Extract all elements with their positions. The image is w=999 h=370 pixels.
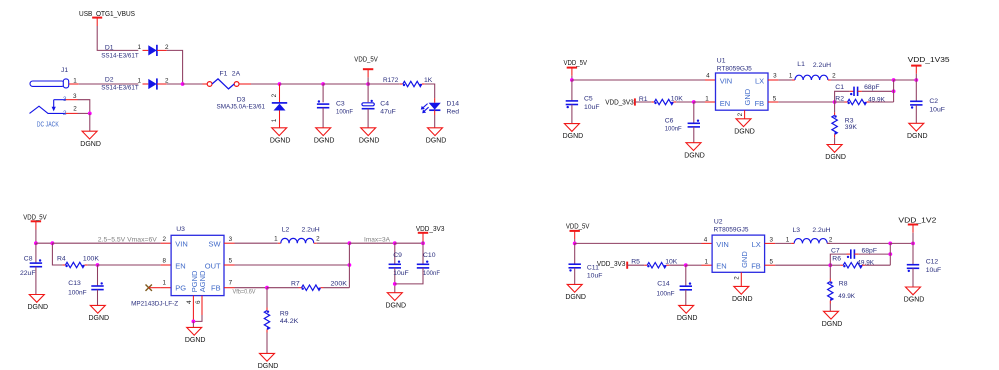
svg-text:2.5~5.5V Vmax=6V: 2.5~5.5V Vmax=6V (98, 237, 157, 243)
svg-text:OUT: OUT (205, 262, 221, 271)
wire C7 to output branch (859, 253, 891, 255)
pin stub U1 GND (737, 110, 745, 118)
ground DGND (R9) (258, 353, 279, 370)
junction J1 ground node (88, 112, 92, 116)
pin stub U3 EN (161, 258, 172, 266)
svg-text:EN: EN (175, 262, 185, 271)
junction output/C2 (914, 78, 918, 82)
svg-text:Imax=3A: Imax=3A (364, 238, 390, 244)
power VDD_5V (U1 block) (564, 60, 588, 80)
capacitor C14 (680, 265, 692, 305)
svg-text:L3: L3 (793, 227, 801, 234)
power VDD_5V (U3 block) (23, 215, 47, 244)
pin stub U2 GND (734, 272, 742, 286)
svg-text:DGND: DGND (314, 137, 335, 144)
wire R8 to ground (829, 304, 831, 312)
wire C3 node to C4 node (323, 83, 368, 85)
wire VDD_3V3 to R5 (627, 264, 644, 266)
wire FB to divider node (778, 101, 834, 103)
capacitor C3 (317, 84, 329, 128)
power VDD_5V (U2 block) (566, 223, 590, 243)
resistor R7 (299, 285, 324, 290)
svg-text:C9: C9 (393, 252, 402, 259)
wire FB node up to C1 (835, 91, 850, 102)
ground DGND (D3) (270, 128, 291, 145)
note Imax (364, 238, 390, 244)
svg-text:R1: R1 (639, 96, 648, 103)
svg-text:10uF: 10uF (584, 104, 600, 111)
pin 3 J1 (66, 93, 78, 100)
label R1 (639, 95, 683, 103)
junction FB node (U3) (265, 286, 269, 290)
svg-text:R5: R5 (631, 258, 640, 265)
svg-text:DC JACK: DC JACK (37, 120, 59, 129)
pin numbers D2 (138, 77, 170, 84)
label C2 (929, 98, 945, 113)
wire C1 to output branch (862, 90, 894, 92)
wire EN node to U1 EN (694, 101, 705, 103)
svg-text:2: 2 (165, 44, 169, 51)
svg-text:1: 1 (271, 118, 278, 122)
svg-text:AGND: AGND (198, 270, 207, 292)
svg-text:1: 1 (274, 236, 278, 243)
label D14 (447, 101, 460, 116)
svg-text:C1: C1 (835, 84, 844, 91)
capacitor C2 (910, 80, 922, 123)
pin stub U2 EN (702, 258, 713, 265)
wire R4 to EN node (87, 264, 97, 266)
pin names U3 (175, 240, 221, 293)
svg-text:DGND: DGND (27, 304, 48, 311)
capacitor C4 (polarized) (362, 84, 375, 128)
junction VDD_5V/C11 (573, 242, 577, 246)
svg-text:D2: D2 (105, 76, 114, 83)
svg-text:C14: C14 (657, 280, 670, 287)
svg-text:LX: LX (755, 76, 764, 85)
led D14 (421, 98, 441, 115)
svg-text:EN: EN (720, 99, 730, 108)
pin stub U3 PG (161, 280, 172, 288)
label DC JACK (37, 120, 59, 129)
svg-text:2A: 2A (232, 70, 241, 77)
pin names U1 (720, 76, 765, 108)
resistor R172 (400, 81, 425, 86)
svg-text:2: 2 (832, 73, 836, 80)
capacitor C11 (569, 243, 581, 284)
pin stub U2 FB (765, 258, 776, 265)
wire output branch vertical (U3) (348, 243, 350, 288)
svg-text:4: 4 (186, 300, 193, 304)
capacitor C13 (91, 265, 103, 305)
svg-text:10K: 10K (671, 95, 684, 102)
wire output to VDD_1V35 (894, 79, 917, 81)
svg-text:C8: C8 (24, 255, 33, 262)
svg-text:RT8059GJ5: RT8059GJ5 (714, 227, 749, 234)
junction VDD_5V/C5 (570, 78, 574, 82)
label D2 (101, 76, 139, 91)
svg-text:DGND: DGND (385, 302, 406, 309)
inductor L2 (278, 238, 317, 243)
inductor L1 (792, 75, 831, 80)
junction VDD_5V/C8 (34, 241, 38, 245)
svg-text:39K: 39K (845, 124, 858, 131)
label C3 (336, 101, 353, 116)
ground DGND (C3) (314, 128, 335, 145)
svg-text:47uF: 47uF (380, 108, 396, 115)
svg-text:Vfb=0.6V: Vfb=0.6V (233, 289, 256, 295)
junction EN/C14 node (684, 263, 688, 267)
svg-text:DGND: DGND (80, 141, 101, 148)
junction D3 node (278, 82, 282, 86)
pin names U2 (716, 240, 761, 271)
pin stub U1 EN (705, 95, 716, 102)
resistor R4 (62, 262, 87, 267)
svg-text:MP2143DJ-LF-Z: MP2143DJ-LF-Z (131, 301, 178, 308)
svg-text:VIN: VIN (716, 240, 729, 249)
wire L2 to output node (317, 242, 350, 244)
svg-text:68pF: 68pF (864, 84, 880, 91)
svg-text:PG: PG (175, 284, 186, 293)
ground DGND (R3) (825, 145, 846, 162)
svg-text:3: 3 (773, 73, 777, 80)
svg-text:DGND: DGND (904, 297, 925, 304)
junction FB node (U2) (828, 263, 832, 267)
junction FB node (833, 100, 837, 104)
wire AGND to PGND (193, 315, 202, 321)
svg-text:22uF: 22uF (20, 270, 36, 277)
svg-text:USB_OTG1_VBUS: USB_OTG1_VBUS (79, 11, 135, 18)
label C7 (831, 248, 877, 255)
label C8 (20, 255, 36, 277)
ground DGND (C4) (359, 128, 380, 145)
svg-text:R8: R8 (839, 281, 848, 288)
svg-text:DGND: DGND (732, 296, 753, 303)
wire C4 node to R172 (368, 83, 400, 85)
svg-text:VDD_1V35: VDD_1V35 (908, 57, 950, 64)
svg-text:GND: GND (740, 251, 749, 268)
svg-text:C2: C2 (929, 98, 938, 105)
wire FB node to R3 (834, 102, 836, 112)
wire C9 to VDD_3V3 (395, 242, 423, 244)
svg-text:2.2uH: 2.2uH (813, 62, 831, 69)
ground DGND (C12) (904, 287, 925, 304)
svg-text:FB: FB (211, 284, 221, 293)
resistor R9 (264, 308, 269, 333)
label U1 (717, 58, 752, 73)
svg-text:DGND: DGND (907, 133, 928, 140)
wire L1 to output node (831, 79, 894, 81)
svg-text:5: 5 (229, 258, 233, 265)
svg-text:100nF: 100nF (423, 270, 440, 277)
pin stub U1 FB (768, 95, 778, 102)
wire FB to divider node (235, 287, 268, 289)
label C11 (587, 265, 603, 280)
wire OUT to output branch (235, 264, 350, 266)
svg-text:FB: FB (751, 261, 761, 270)
svg-text:DGND: DGND (677, 315, 698, 322)
diode D1 (143, 45, 167, 56)
note Vfb (233, 289, 256, 295)
svg-text:RT8059GJ5: RT8059GJ5 (717, 66, 752, 73)
pin stub U2 LX (765, 237, 776, 244)
junction C7/output branch (888, 252, 892, 256)
wire EN node to U3 EN (98, 264, 161, 266)
capacitor C6 (688, 102, 700, 143)
wire FB node to R8 (829, 265, 831, 278)
svg-text:4: 4 (704, 237, 708, 244)
connector J1 sleeve/switch contacts (30, 96, 68, 117)
svg-text:2: 2 (165, 77, 169, 84)
resistor R6 (840, 263, 865, 268)
wire J1 pin1 to D2 (79, 83, 139, 85)
pin numbers L3 (786, 237, 833, 244)
svg-text:Red: Red (447, 108, 460, 115)
label C6 (665, 117, 682, 132)
wire R2 to output branch (870, 101, 894, 103)
capacitor C5 (566, 80, 578, 124)
svg-text:DGND: DGND (359, 137, 380, 144)
svg-text:4: 4 (706, 73, 710, 80)
svg-text:L2: L2 (282, 226, 290, 233)
svg-text:2: 2 (737, 112, 744, 116)
svg-text:100nF: 100nF (665, 126, 682, 133)
svg-text:VDD_3V3: VDD_3V3 (605, 100, 634, 107)
svg-text:10uF: 10uF (929, 106, 945, 113)
svg-text:R9: R9 (280, 310, 289, 317)
junction VDD_3V3 node (421, 241, 425, 245)
svg-text:100K: 100K (83, 256, 99, 263)
diode D2 (143, 78, 167, 89)
label C14 (657, 280, 675, 297)
label R7 (291, 280, 347, 287)
label R9 (280, 310, 299, 325)
label C12 (926, 259, 942, 275)
svg-text:1: 1 (786, 237, 790, 244)
svg-text:10uF: 10uF (393, 270, 409, 277)
junction EN/C6 node (692, 100, 696, 104)
junction C9 node (393, 241, 397, 245)
svg-text:1: 1 (138, 77, 142, 84)
ground DGND (C14) (677, 305, 698, 322)
svg-text:10uF: 10uF (587, 272, 603, 279)
ground DGND (C8) (27, 295, 48, 312)
regulator U3 (171, 235, 224, 295)
svg-text:L1: L1 (797, 61, 805, 68)
wire R1 to EN node (676, 101, 694, 103)
svg-text:VDD_5V: VDD_5V (354, 57, 378, 64)
svg-text:F1: F1 (220, 70, 228, 77)
svg-text:DGND: DGND (88, 315, 109, 322)
wire U3 ground down (192, 321, 194, 327)
svg-text:VDD_3V3: VDD_3V3 (416, 226, 445, 233)
svg-text:68pF: 68pF (862, 248, 878, 255)
svg-text:R172: R172 (383, 77, 399, 84)
svg-text:1K: 1K (424, 77, 433, 84)
ground DGND (U3) (185, 327, 206, 344)
wire R4 branch down (52, 243, 62, 265)
ground DGND (C2) (907, 123, 928, 140)
junction OUT branch (348, 263, 352, 267)
wire J1 pin3 to pin2 (78, 100, 90, 114)
svg-text:3: 3 (73, 93, 77, 100)
junction C4 node (366, 82, 370, 86)
label C9 (393, 252, 409, 277)
power VDD_3V3 (U1 block) (605, 98, 635, 106)
capacitor C1 (850, 87, 862, 96)
svg-text:DGND: DGND (270, 137, 291, 144)
regulator U2 (712, 235, 765, 272)
svg-text:C6: C6 (665, 117, 674, 124)
ground DGND (U1) (734, 119, 755, 136)
label U3 (176, 226, 185, 233)
svg-text:3: 3 (769, 237, 773, 244)
svg-text:R2: R2 (835, 96, 844, 103)
label U2 (714, 218, 749, 233)
svg-text:DGND: DGND (258, 363, 279, 370)
wire FB node to R9 (266, 288, 268, 308)
svg-text:C3: C3 (336, 101, 345, 108)
ground DGND (C6) (684, 143, 705, 160)
svg-text:VDD_5V: VDD_5V (566, 223, 590, 230)
pin stub U3 VIN (161, 236, 172, 243)
junction C1/output branch (892, 89, 896, 93)
ground DGND (C9) (385, 293, 406, 310)
svg-text:10uF: 10uF (926, 267, 942, 274)
wire FB to divider node (U2) (775, 264, 830, 266)
pin numbers L2 (274, 236, 320, 243)
svg-text:2.2uH: 2.2uH (302, 226, 320, 233)
svg-text:U2: U2 (714, 218, 723, 225)
pin stub U1 LX (768, 73, 778, 80)
svg-text:6: 6 (195, 300, 202, 304)
pin stub U3 OUT (224, 258, 235, 266)
power VDD_5V (top-left) (354, 57, 378, 84)
label R8 (838, 281, 855, 300)
wire FB node to R7 (267, 287, 299, 289)
capacitor C8 (30, 243, 42, 294)
power VDD_1V35 (908, 57, 950, 80)
svg-text:LX: LX (752, 240, 761, 249)
svg-text:1: 1 (789, 73, 793, 80)
svg-text:DGND: DGND (563, 133, 584, 140)
fuse F1 (207, 79, 239, 89)
wire R3 to ground (834, 137, 836, 144)
note input voltage (98, 237, 157, 243)
svg-text:VDD_3V3: VDD_3V3 (597, 261, 626, 268)
svg-text:2: 2 (829, 237, 833, 244)
wire VDD_5V to R4 branch (36, 242, 53, 244)
label C10 (423, 252, 440, 277)
svg-text:2: 2 (162, 236, 166, 243)
wire output branch vertical (U2) (889, 243, 891, 265)
label R5 (631, 258, 678, 265)
svg-text:200K: 200K (331, 280, 348, 287)
wire output to C9 (349, 242, 394, 244)
svg-text:SS14-E3/61T: SS14-E3/61T (101, 53, 139, 60)
svg-text:R4: R4 (57, 256, 66, 263)
inductor L3 (791, 239, 830, 244)
label C4 (380, 101, 396, 116)
pin 2 J1 (66, 105, 78, 113)
svg-text:DGND: DGND (684, 152, 705, 159)
svg-text:2: 2 (316, 236, 320, 243)
svg-text:100nF: 100nF (336, 108, 353, 115)
svg-text:R7: R7 (291, 280, 300, 287)
junction output/C12 (911, 242, 915, 246)
svg-text:VDD_1V2: VDD_1V2 (898, 218, 936, 225)
capacitor C9 (389, 243, 401, 293)
svg-text:D1: D1 (105, 44, 114, 51)
junction output/OUT branch (348, 241, 352, 245)
junction output/feedback (892, 78, 896, 82)
ground DGND (C11) (565, 284, 586, 301)
svg-text:SMAJ5.0A-E3/61: SMAJ5.0A-E3/61 (217, 103, 266, 110)
no-connect X on PG (146, 285, 161, 291)
junction EN/C13 node (96, 263, 100, 267)
wire VDD_5V to U2 VIN (575, 242, 702, 244)
capacitor C12 (907, 243, 919, 287)
regulator U1 (716, 73, 769, 110)
wire FB node up to C7 (830, 254, 846, 265)
wire D3 node to C3 node (280, 83, 324, 85)
wire to DC jack ground (89, 113, 91, 131)
wire D1 cathode to node VBUS_IN (167, 50, 183, 84)
svg-text:FB: FB (755, 99, 765, 108)
ground DGND (DC jack) (80, 131, 101, 148)
svg-text:1: 1 (705, 95, 709, 102)
svg-text:VIN: VIN (720, 76, 733, 85)
junction VBUS node (181, 82, 185, 86)
resistor R2 (845, 99, 870, 104)
wire R7 to output branch (324, 287, 350, 289)
svg-text:2: 2 (734, 276, 741, 280)
wire EN node to U2 EN (686, 264, 702, 266)
label J1 (61, 67, 68, 74)
wire LX to L3 (775, 242, 791, 244)
label R4 (57, 256, 99, 263)
svg-text:2: 2 (73, 105, 77, 112)
svg-text:10K: 10K (665, 258, 678, 265)
svg-text:1: 1 (73, 77, 77, 84)
label L1 (797, 61, 831, 69)
label R6 (832, 256, 874, 267)
svg-text:DGND: DGND (426, 137, 447, 144)
label D1 (101, 44, 139, 59)
wire D2 cathode to junction (167, 83, 183, 85)
power flag USB_OTG1_VBUS (79, 11, 135, 26)
wire VDD_3V3 to R1 (635, 101, 651, 103)
svg-text:DGND: DGND (822, 321, 843, 328)
connector J1 barrel plug (30, 79, 69, 88)
svg-text:SS14-E3/61T: SS14-E3/61T (101, 85, 139, 92)
capacitor C7 (847, 249, 859, 258)
power VDD_3V3 (U3 output) (416, 226, 445, 243)
power VDD_1V2 (898, 218, 936, 244)
tvs diode D3 (272, 84, 287, 128)
svg-text:C10: C10 (423, 252, 436, 259)
svg-text:8: 8 (162, 258, 166, 265)
junction output/feedback (U2) (888, 242, 892, 246)
svg-text:D14: D14 (447, 101, 460, 108)
svg-text:1: 1 (138, 44, 142, 51)
wire R9 to ground (266, 333, 268, 354)
wire FB node to R2 (835, 101, 845, 103)
pin stub U3 FB (224, 280, 235, 288)
svg-text:DGND: DGND (565, 294, 586, 301)
wire junction to fuse (183, 83, 208, 85)
label C1 (835, 84, 879, 91)
pin numbers D3 (271, 93, 278, 122)
